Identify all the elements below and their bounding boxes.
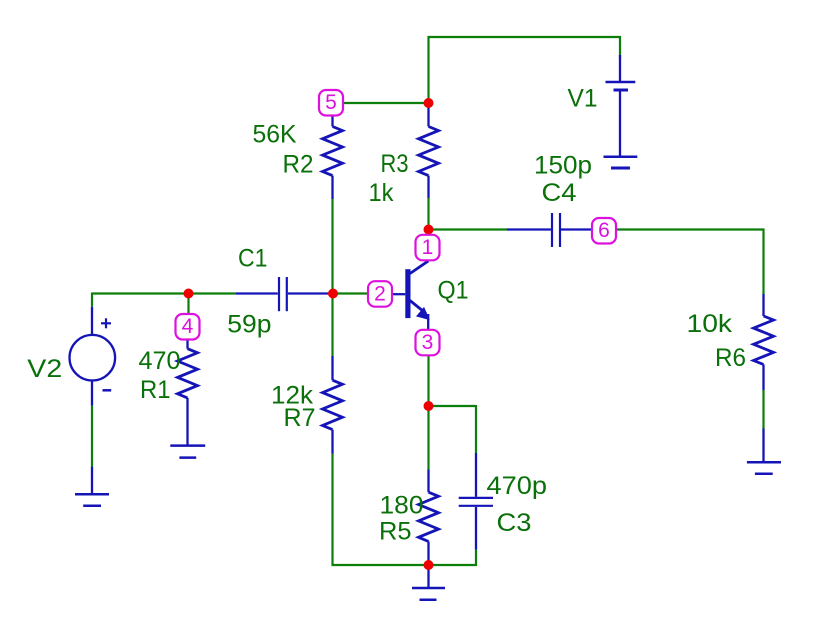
svg-text:1k: 1k	[369, 179, 394, 207]
svg-text:C1: C1	[238, 245, 268, 273]
svg-text:V2: V2	[27, 355, 62, 383]
svg-text:150p: 150p	[534, 152, 592, 180]
svg-text:Q1: Q1	[438, 277, 469, 305]
svg-text:R2: R2	[283, 151, 314, 179]
svg-text:R1: R1	[140, 376, 171, 404]
svg-text:180: 180	[380, 492, 424, 520]
svg-text:R6: R6	[715, 344, 746, 372]
svg-text:6: 6	[598, 219, 610, 242]
svg-text:C4: C4	[542, 179, 577, 207]
svg-text:1: 1	[422, 236, 434, 259]
svg-text:5: 5	[325, 91, 337, 114]
svg-text:2: 2	[374, 282, 386, 305]
svg-text:56K: 56K	[253, 121, 297, 149]
svg-text:C3: C3	[497, 509, 532, 537]
svg-text:R3: R3	[381, 150, 409, 178]
svg-text:59p: 59p	[227, 311, 271, 339]
svg-text:470: 470	[139, 347, 181, 375]
svg-text:4: 4	[182, 315, 194, 338]
svg-text:R7: R7	[284, 404, 316, 432]
svg-text:V1: V1	[568, 85, 598, 113]
svg-text:R5: R5	[379, 518, 412, 546]
svg-text:3: 3	[422, 331, 434, 354]
svg-text:10k: 10k	[687, 310, 733, 338]
svg-text:470p: 470p	[487, 472, 548, 500]
